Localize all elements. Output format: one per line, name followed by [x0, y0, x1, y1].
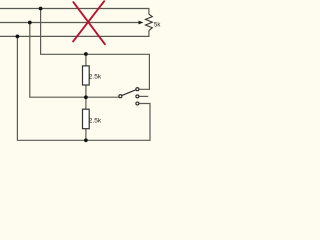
- potentiometer wiper arrowhead: [139, 21, 144, 25]
- svg-text:2.5k: 2.5k: [89, 74, 102, 81]
- switch SW1 lever: [122, 90, 136, 96]
- junction dot on middle rail: [28, 21, 32, 25]
- wire stub from switch middle throw: [139, 95, 148, 97]
- potentiometer VR1 5k zigzag: [146, 14, 153, 30]
- wire R1 leads: [85, 54, 87, 97]
- resistor R1 2.5k body: [83, 66, 90, 85]
- junction dot on top rail: [39, 7, 43, 11]
- switch SW1 top throw contact: [136, 88, 139, 91]
- junction dot bottom rail under R2: [84, 138, 88, 142]
- switch SW1 pole contact: [119, 95, 122, 98]
- wire bottom rail to potentiometer bottom: [0, 30, 149, 36]
- red X deletion mark stroke 1: [73, 2, 105, 44]
- wire node B drop to divider midpoint and switch pole: [30, 23, 119, 98]
- svg-text:5k: 5k: [154, 23, 161, 29]
- svg-text:2.5k: 2.5k: [89, 118, 102, 125]
- wire node A drop to top of R1 and switch top throw: [41, 9, 150, 90]
- wire middle rail to potentiometer wiper arrow: [0, 22, 139, 24]
- switch SW1 bottom throw contact: [136, 102, 139, 105]
- resistor R2 2.5k body: [83, 109, 90, 129]
- red X deletion mark stroke 2: [73, 1, 104, 41]
- wire R2 leads: [85, 97, 87, 140]
- junction dot on bottom rail: [16, 35, 20, 39]
- junction dot divider midpoint: [84, 95, 88, 99]
- wire top rail to potentiometer top: [0, 9, 149, 15]
- junction dot top of R1: [84, 52, 88, 56]
- wire node C drop along left to bottom rail and up to switch bottom throw: [17, 36, 150, 140]
- switch SW1 middle throw contact: [136, 95, 139, 98]
